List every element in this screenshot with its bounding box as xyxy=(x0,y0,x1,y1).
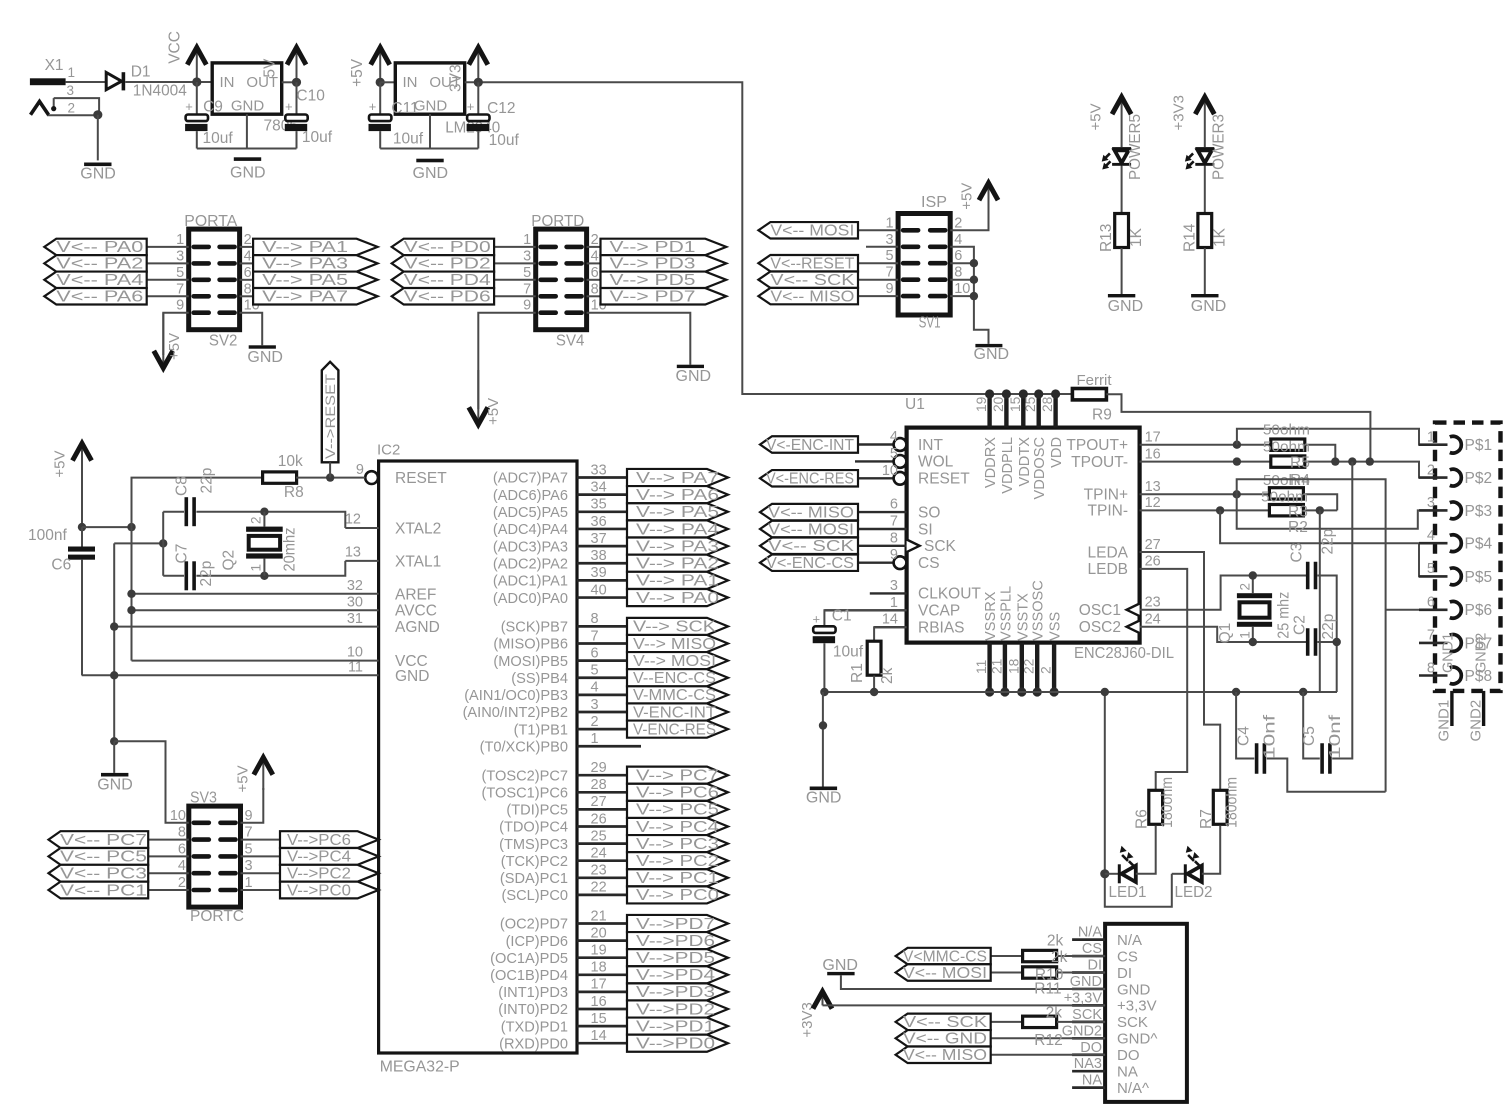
svg-text:38: 38 xyxy=(591,548,607,564)
LED POWER5 xyxy=(1112,147,1131,150)
pin 3 P$3 xyxy=(1419,509,1448,512)
svg-text:R9: R9 xyxy=(1092,407,1112,424)
net flag ENC-INT xyxy=(760,436,858,452)
svg-text:2k: 2k xyxy=(1046,1004,1063,1021)
wire xyxy=(494,262,536,264)
svg-text:V-ENC-RES: V-ENC-RES xyxy=(633,721,716,738)
wire to P$3 xyxy=(1237,494,1448,529)
net flag PD0 xyxy=(627,1035,728,1052)
svg-text:RESET: RESET xyxy=(918,471,970,488)
svg-text:V-->PD7: V-->PD7 xyxy=(636,916,715,933)
svg-text:V<-- SCK: V<-- SCK xyxy=(770,272,855,289)
pin 22 VSSOSC xyxy=(1035,643,1039,692)
svg-text:R14: R14 xyxy=(1181,223,1198,252)
svg-text:1K: 1K xyxy=(1211,227,1228,247)
wire xyxy=(162,512,164,576)
net flag MOSI xyxy=(858,229,898,231)
junction xyxy=(1249,571,1257,579)
wire gnd xyxy=(81,560,83,676)
svg-text:ENC28J60-DIL: ENC28J60-DIL xyxy=(1074,645,1174,662)
svg-text:ISP: ISP xyxy=(921,194,947,211)
capacitor C9 10uf xyxy=(196,82,198,115)
ground xyxy=(113,741,115,773)
svg-text:6: 6 xyxy=(591,645,599,661)
wire TPOUT+ pin17 xyxy=(1140,444,1271,446)
svg-text:P$1: P$1 xyxy=(1465,437,1493,454)
svg-text:(MISO)PB6: (MISO)PB6 xyxy=(493,637,568,653)
svg-text:6: 6 xyxy=(591,265,599,281)
svg-text:+5V: +5V xyxy=(166,333,183,360)
wire VDD bus xyxy=(742,393,1072,395)
svg-text:2: 2 xyxy=(244,232,252,248)
wire termination to gnd bus xyxy=(1319,510,1321,692)
svg-text:33: 33 xyxy=(591,462,607,478)
svg-text:GND: GND xyxy=(806,790,842,807)
svg-text:P$6: P$6 xyxy=(1465,602,1493,619)
net flag MOSI xyxy=(991,972,1023,974)
net flag PA1 xyxy=(253,239,378,255)
wire xyxy=(587,295,601,297)
pin 9 CS xyxy=(858,562,893,564)
svg-text:AGND: AGND xyxy=(395,619,440,636)
svg-text:R2: R2 xyxy=(1288,519,1308,536)
svg-text:VSSOSC: VSSOSC xyxy=(1031,580,1047,641)
wire TPIN+ pin13 xyxy=(1140,493,1269,495)
wire xyxy=(1121,166,1123,213)
svg-text:21: 21 xyxy=(591,908,607,924)
svg-text:6: 6 xyxy=(178,841,186,857)
net flag PA0 xyxy=(44,239,146,255)
wire xyxy=(240,262,254,264)
supply +5V (down arrow) xyxy=(477,370,479,423)
svg-text:20: 20 xyxy=(591,925,607,941)
svg-text:13: 13 xyxy=(345,545,361,561)
wire to P$6 xyxy=(1386,609,1448,611)
junction xyxy=(127,523,135,531)
svg-text:V<-- SCK: V<-- SCK xyxy=(768,538,855,555)
pin 1 VCAP xyxy=(824,609,906,611)
crystal Q1 25mhz xyxy=(1140,576,1306,610)
svg-text:+3,3V: +3,3V xyxy=(1117,998,1157,1015)
svg-text:INT: INT xyxy=(918,437,944,454)
svg-text:V<-- MISO: V<-- MISO xyxy=(903,1047,987,1064)
pin 25 VDDOSC xyxy=(1036,394,1040,428)
svg-text:V--> PC4: V--> PC4 xyxy=(636,819,719,836)
svg-text:(ADC1)PA1: (ADC1)PA1 xyxy=(493,574,568,590)
svg-text:V<-- PC5: V<-- PC5 xyxy=(60,849,147,866)
svg-text:V--> PC1: V--> PC1 xyxy=(636,870,719,887)
svg-text:(T1)PB1: (T1)PB1 xyxy=(514,722,568,738)
svg-text:9: 9 xyxy=(890,547,898,563)
svg-text:DO: DO xyxy=(1080,1040,1102,1056)
svg-text:8: 8 xyxy=(1427,660,1435,676)
svg-text:40: 40 xyxy=(591,582,607,598)
resistor R1 2k xyxy=(874,627,907,641)
wire xyxy=(1204,166,1206,213)
svg-text:TPOUT+: TPOUT+ xyxy=(1066,437,1128,454)
wire xyxy=(587,313,691,365)
capacitor C10 10uf xyxy=(296,82,298,115)
wire xyxy=(494,279,536,281)
svg-text:10uf: 10uf xyxy=(833,644,864,661)
svg-text:1: 1 xyxy=(176,232,184,248)
svg-text:GND: GND xyxy=(395,668,429,685)
net flag PC2 xyxy=(627,852,728,869)
svg-text:SV4: SV4 xyxy=(556,333,585,350)
svg-text:5: 5 xyxy=(523,265,531,281)
svg-text:V--> PD1: V--> PD1 xyxy=(610,239,696,256)
wire xyxy=(66,81,107,83)
svg-text:+: + xyxy=(467,99,475,114)
svg-text:V--> PA2: V--> PA2 xyxy=(636,556,719,573)
svg-text:11: 11 xyxy=(348,660,363,676)
svg-text:23: 23 xyxy=(591,863,607,879)
svg-text:TPIN-: TPIN- xyxy=(1088,503,1128,520)
wire +5V rail xyxy=(131,527,133,661)
svg-text:2: 2 xyxy=(591,232,599,248)
svg-text:GND2: GND2 xyxy=(1468,700,1485,742)
wire pin9 +5V xyxy=(241,788,264,823)
svg-text:+3,3V: +3,3V xyxy=(1064,990,1103,1006)
svg-text:(ICP)PD6: (ICP)PD6 xyxy=(506,934,568,950)
svg-text:(TXD)PD1: (TXD)PD1 xyxy=(501,1019,568,1035)
svg-text:V-ENC-INT: V-ENC-INT xyxy=(633,704,717,721)
svg-text:N/A: N/A xyxy=(1078,925,1103,941)
net flag PC7 xyxy=(627,767,728,784)
svg-text:+: + xyxy=(285,99,293,114)
svg-text:2: 2 xyxy=(591,714,599,730)
resistor R3 50ohm xyxy=(1269,488,1303,499)
junction xyxy=(1216,506,1224,514)
pin 5 WOL xyxy=(855,460,893,462)
svg-text:(SCL)PC0: (SCL)PC0 xyxy=(502,888,569,904)
junction xyxy=(1232,688,1240,696)
svg-text:(INT0)PD2: (INT0)PD2 xyxy=(498,1002,568,1018)
net flag ENC-INT xyxy=(627,703,728,720)
svg-text:V-->PD3: V-->PD3 xyxy=(636,984,715,1001)
svg-text:17: 17 xyxy=(1145,430,1161,446)
svg-text:3: 3 xyxy=(591,697,599,713)
pin 14 RBIAS xyxy=(874,626,907,628)
net flag SCK xyxy=(858,279,898,281)
net flag PD7 xyxy=(627,915,728,932)
pin 18 VSSTX xyxy=(1020,643,1024,692)
resistor R12 2k xyxy=(1023,1016,1057,1027)
svg-text:SO: SO xyxy=(918,504,940,521)
junction xyxy=(819,721,827,729)
svg-text:25 mhz: 25 mhz xyxy=(1276,592,1293,639)
svg-text:25: 25 xyxy=(1023,396,1038,412)
svg-text:5: 5 xyxy=(886,248,894,264)
net flag PC1 xyxy=(148,889,189,891)
pin 15 VDDTX xyxy=(1021,394,1025,428)
net flag PD2 xyxy=(392,255,494,271)
svg-text:V<MMC-CS: V<MMC-CS xyxy=(903,948,987,965)
net flag PD6 xyxy=(627,932,728,949)
wire from R9 to ethernet xyxy=(1106,394,1370,461)
svg-text:2: 2 xyxy=(178,875,186,891)
svg-text:P$4: P$4 xyxy=(1465,536,1493,553)
svg-text:3: 3 xyxy=(523,248,531,264)
net flag PC2 xyxy=(241,872,281,874)
resistor R4 50ohm xyxy=(1271,456,1305,467)
svg-text:(OC1B)PD4: (OC1B)PD4 xyxy=(490,968,568,984)
svg-text:8: 8 xyxy=(244,281,252,297)
junction xyxy=(260,572,268,580)
svg-text:1: 1 xyxy=(68,65,76,80)
junction xyxy=(159,539,167,547)
svg-text:+5V: +5V xyxy=(1088,103,1105,130)
svg-text:V-->PD4: V-->PD4 xyxy=(636,967,716,984)
svg-text:GND: GND xyxy=(414,98,448,115)
net flag PD5 xyxy=(601,272,727,288)
svg-text:V<-ENC-CS: V<-ENC-CS xyxy=(766,555,854,572)
svg-text:N/A: N/A xyxy=(1117,932,1142,949)
net flag PD4 xyxy=(392,272,494,288)
svg-text:R3: R3 xyxy=(1288,504,1308,521)
net flag SCK xyxy=(627,618,728,635)
svg-text:10k: 10k xyxy=(278,453,303,470)
svg-text:1N4004: 1N4004 xyxy=(133,82,187,99)
svg-text:4: 4 xyxy=(954,232,962,248)
svg-text:+5V: +5V xyxy=(349,58,366,87)
pin 20 VDDPLL xyxy=(1004,394,1008,428)
svg-text:XTAL1: XTAL1 xyxy=(395,554,441,571)
svg-text:(ADC7)PA7: (ADC7)PA7 xyxy=(493,471,568,487)
wire xyxy=(296,477,365,479)
pin 6 P$6 xyxy=(1419,608,1448,611)
svg-text:R6: R6 xyxy=(1134,809,1151,829)
svg-text:C1: C1 xyxy=(832,607,852,624)
svg-text:VCC: VCC xyxy=(167,31,184,64)
svg-text:35: 35 xyxy=(591,497,607,513)
wire TPOUT- pin16 xyxy=(1140,461,1271,463)
svg-text:D1: D1 xyxy=(131,63,151,80)
resistor R14 1K xyxy=(1198,214,1212,248)
svg-text:CS: CS xyxy=(1117,948,1138,965)
svg-text:V<-- PD0: V<-- PD0 xyxy=(404,239,491,256)
pin 6 SO xyxy=(858,511,907,513)
svg-text:10nf: 10nf xyxy=(1262,714,1279,759)
wire xyxy=(329,462,331,477)
net flag -ENC-CS xyxy=(627,669,728,686)
wire xyxy=(147,279,189,281)
svg-text:7: 7 xyxy=(1427,628,1435,644)
svg-text:27: 27 xyxy=(591,794,607,810)
svg-text:GND1: GND1 xyxy=(1436,700,1453,742)
svg-text:TPOUT-: TPOUT- xyxy=(1071,454,1128,471)
svg-text:15: 15 xyxy=(1008,396,1023,412)
svg-text:6: 6 xyxy=(954,248,962,264)
svg-text:VSSTX: VSSTX xyxy=(1015,593,1031,641)
svg-text:X1: X1 xyxy=(45,57,64,74)
net flag PA7 xyxy=(253,288,378,304)
svg-text:18: 18 xyxy=(591,960,607,976)
svg-text:28: 28 xyxy=(1040,396,1055,412)
wire TPIN- pin12 xyxy=(1140,509,1269,511)
svg-text:V<-- MOSI: V<-- MOSI xyxy=(903,965,987,982)
svg-text:5: 5 xyxy=(176,265,184,281)
svg-text:(TDI)PC5: (TDI)PC5 xyxy=(506,803,568,819)
pin 7 P$7 xyxy=(1419,642,1448,645)
svg-text:2k: 2k xyxy=(1051,949,1068,966)
svg-text:7: 7 xyxy=(176,281,184,297)
svg-text:GND^: GND^ xyxy=(1117,1031,1157,1048)
net flag PD2 xyxy=(627,1000,728,1017)
svg-text:DO: DO xyxy=(1117,1047,1140,1064)
svg-text:C11: C11 xyxy=(391,100,418,117)
svg-text:TPIN+: TPIN+ xyxy=(1084,487,1128,504)
net flag MMC-CS xyxy=(627,686,728,703)
svg-text:3: 3 xyxy=(886,232,894,248)
net flag PD0 xyxy=(392,239,494,255)
connector MMC card xyxy=(1105,924,1187,1102)
svg-text:1: 1 xyxy=(1427,430,1435,446)
svg-text:1K: 1K xyxy=(1128,227,1145,247)
svg-text:3V3: 3V3 xyxy=(448,64,465,92)
svg-text:9: 9 xyxy=(176,298,184,314)
svg-text:V<-- PD4: V<-- PD4 xyxy=(404,272,491,289)
svg-text:V<-- PD2: V<-- PD2 xyxy=(404,256,491,273)
svg-text:12: 12 xyxy=(1145,495,1161,511)
svg-text:V--> PD3: V--> PD3 xyxy=(610,256,696,273)
svg-text:10: 10 xyxy=(170,808,186,824)
svg-text:VSSPLL: VSSPLL xyxy=(998,586,1014,641)
net flag PA1 xyxy=(627,572,728,589)
svg-text:V-MMC-CS: V-MMC-CS xyxy=(633,687,716,704)
connector X2 ethernet jack (dashed) xyxy=(1435,423,1501,691)
net flag PD3 xyxy=(627,983,728,1000)
capacitor C3 22p xyxy=(1306,562,1310,590)
wire xyxy=(240,246,254,248)
svg-text:6: 6 xyxy=(244,265,252,281)
svg-text:NA: NA xyxy=(1117,1064,1138,1081)
svg-text:N/A^: N/A^ xyxy=(1117,1080,1149,1097)
svg-text:(ADC2)PA2: (ADC2)PA2 xyxy=(493,556,568,572)
svg-text:V-->PC4: V-->PC4 xyxy=(287,849,351,866)
svg-text:8: 8 xyxy=(178,825,186,841)
net flag PC0 xyxy=(241,889,281,891)
resistor R2 50ohm xyxy=(1269,505,1303,516)
svg-text:14: 14 xyxy=(591,1028,607,1044)
wire pin10 to gnd rail xyxy=(114,741,189,823)
svg-text:14: 14 xyxy=(882,612,898,628)
svg-text:SV2: SV2 xyxy=(209,333,238,350)
wire GND1 stub xyxy=(1450,691,1453,726)
svg-text:31: 31 xyxy=(347,611,363,627)
svg-text:7: 7 xyxy=(890,514,898,530)
net flag PD1 xyxy=(627,1018,728,1035)
svg-text:GND2: GND2 xyxy=(1062,1023,1102,1039)
svg-text:1: 1 xyxy=(886,215,894,231)
wire xyxy=(494,246,536,248)
svg-text:2k: 2k xyxy=(879,667,896,684)
pin 10 RESET xyxy=(858,477,893,479)
svg-text:(OC2)PD7: (OC2)PD7 xyxy=(500,917,568,933)
net flag PD1 xyxy=(601,239,727,255)
wire +5V xyxy=(950,198,988,230)
svg-text:100nf: 100nf xyxy=(28,527,67,544)
svg-text:GND: GND xyxy=(1117,981,1151,998)
svg-text:IC2: IC2 xyxy=(377,442,400,459)
diode D1 1N4004 xyxy=(106,73,121,90)
svg-text:C9: C9 xyxy=(203,99,223,116)
net flag PC1 xyxy=(627,869,728,886)
svg-text:V--> PC7: V--> PC7 xyxy=(636,768,719,785)
net flag PA5 xyxy=(627,503,728,520)
svg-text:V--> PD5: V--> PD5 xyxy=(610,272,696,289)
svg-text:GND: GND xyxy=(1191,298,1227,315)
svg-text:Q2: Q2 xyxy=(221,550,238,571)
svg-text:GND: GND xyxy=(247,349,283,366)
svg-text:50ohm: 50ohm xyxy=(1263,438,1310,455)
svg-text:34: 34 xyxy=(591,479,607,495)
svg-text:20: 20 xyxy=(991,396,1006,412)
svg-text:(ADC5)PA5: (ADC5)PA5 xyxy=(493,505,568,521)
svg-text:4: 4 xyxy=(591,680,599,696)
svg-text:V<-- MOSI: V<-- MOSI xyxy=(770,223,854,240)
wire xyxy=(240,313,263,346)
ground xyxy=(975,344,1002,347)
svg-text:23: 23 xyxy=(1145,595,1161,611)
net flag RESET (vertical) xyxy=(322,362,339,463)
net flag PD4 xyxy=(627,966,728,983)
svg-text:2: 2 xyxy=(68,101,76,116)
wire xyxy=(950,279,974,281)
voltage regulator 7805 IC1 xyxy=(212,63,282,114)
junction xyxy=(93,110,102,119)
resistor R9 Ferrit xyxy=(1072,389,1106,400)
svg-text:R11: R11 xyxy=(1034,980,1061,997)
svg-text:5: 5 xyxy=(1427,561,1435,577)
wire crystal gnd xyxy=(114,542,163,544)
svg-text:V<-- SCK: V<-- SCK xyxy=(903,1014,988,1031)
svg-text:GND: GND xyxy=(97,777,133,794)
svg-text:9: 9 xyxy=(245,808,253,824)
svg-text:+5V: +5V xyxy=(959,183,976,210)
net flag ENC-CS xyxy=(760,554,858,570)
svg-text:XTAL2: XTAL2 xyxy=(395,521,441,538)
svg-text:1: 1 xyxy=(591,731,599,747)
wire xyxy=(587,246,601,248)
pin 8 P$8 xyxy=(1419,674,1448,677)
svg-text:V--> MOSI: V--> MOSI xyxy=(633,653,716,670)
ground xyxy=(249,345,276,348)
net flag PA2 xyxy=(44,255,146,271)
net flag MISO xyxy=(760,504,858,520)
svg-text:24: 24 xyxy=(1145,612,1161,628)
resistor R10 2k xyxy=(1023,950,1057,961)
resistor R13 1K xyxy=(1115,214,1129,248)
wire xyxy=(147,295,189,297)
svg-text:DI: DI xyxy=(1117,965,1132,982)
junction xyxy=(970,276,978,284)
wire xyxy=(97,115,99,161)
LED POWER3 xyxy=(1195,147,1214,150)
wire xyxy=(82,526,132,528)
svg-text:V--> PA5: V--> PA5 xyxy=(262,272,348,289)
wire gnd drop xyxy=(1105,692,1172,907)
svg-text:POWER5: POWER5 xyxy=(1127,114,1144,180)
net flag MOSI xyxy=(627,652,728,669)
svg-text:V--> PC2: V--> PC2 xyxy=(636,853,719,870)
svg-text:10nf: 10nf xyxy=(1327,714,1344,759)
svg-text:V--> PC0: V--> PC0 xyxy=(636,887,719,904)
svg-text:2: 2 xyxy=(1237,583,1252,591)
svg-text:AVCC: AVCC xyxy=(395,603,437,620)
svg-text:GND: GND xyxy=(974,346,1010,363)
wire xyxy=(1204,248,1206,294)
